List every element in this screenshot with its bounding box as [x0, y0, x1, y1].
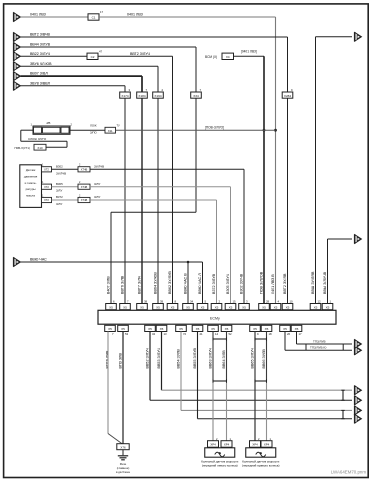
- svg-text:ХТ4В: ХТ4В: [81, 168, 88, 172]
- svg-text:Х76: Х76: [120, 446, 126, 450]
- svg-text:В372: В372: [56, 195, 63, 199]
- svg-text:З/ЛУ: З/ЛУ: [94, 182, 100, 186]
- svg-text:ВВЮ ЧАС.В: ВВЮ ЧАС.В: [183, 273, 187, 294]
- svg-text:34: 34: [152, 332, 156, 336]
- svg-text:ХТ2: ХТ2: [44, 198, 49, 202]
- svg-text:BCM (X): BCM (X): [205, 55, 217, 59]
- svg-text:Х5: Х5: [121, 327, 125, 331]
- svg-text:17: 17: [100, 10, 104, 14]
- svg-text:ВВЮ ЧАС.Л: ВВЮ ЧАС.Л: [198, 273, 202, 294]
- svg-text:ВВ62 ЗУ/ЛУВ: ВВ62 ЗУ/ЛУВ: [168, 271, 172, 294]
- svg-text:ХР4: ХР4: [210, 443, 216, 447]
- svg-text:J/B: J/B: [46, 121, 50, 125]
- svg-text:давления: давления: [24, 175, 38, 179]
- svg-text:17: 17: [299, 332, 303, 336]
- svg-text:ХР4: ХР4: [224, 443, 230, 447]
- svg-text:ВВ66 ЗУЛВ: ВВ66 ЗУЛВ: [262, 349, 266, 369]
- svg-text:Х5: Х5: [179, 327, 183, 331]
- svg-text:ВВТ7 З/ЛЧ: ВВТ7 З/ЛЧ: [137, 275, 141, 294]
- svg-text:34: 34: [190, 300, 194, 304]
- svg-text:Х5: Х5: [123, 305, 127, 309]
- svg-text:Х5: Х5: [242, 305, 246, 309]
- svg-text:ВПТ6 ЛЯВ: ВПТ6 ЛЯВ: [105, 350, 109, 369]
- svg-text:ЛОЖ: ЛОЖ: [90, 124, 97, 128]
- svg-text:15: 15: [233, 300, 237, 304]
- svg-text:10: 10: [290, 300, 294, 304]
- svg-text:39: 39: [160, 300, 164, 304]
- svg-text:ВВЮ ЧАС: ВВЮ ЧАС: [30, 258, 47, 262]
- svg-text:Х5: Х5: [265, 327, 269, 331]
- svg-text:З/ЛУ: З/ЛУ: [56, 202, 62, 206]
- svg-text:ВВ64 З/ЛВ: ВВ64 З/ЛВ: [222, 350, 226, 369]
- svg-text:Х5: Х5: [109, 305, 113, 309]
- svg-text:0401 ЛВЗ: 0401 ЛВЗ: [30, 13, 46, 17]
- svg-text:Х5: Х5: [160, 327, 164, 331]
- svg-text:Х5: Х5: [274, 305, 278, 309]
- svg-text:X4: X4: [226, 55, 230, 59]
- svg-text:18: 18: [269, 332, 273, 336]
- svg-text:(передний левого колеса): (передний левого колеса): [202, 464, 238, 468]
- svg-text:ХТ4В: ХТ4В: [81, 185, 88, 189]
- svg-text:Х5: Х5: [283, 327, 287, 331]
- svg-text:З/ЛУ: З/ЛУ: [56, 189, 62, 193]
- svg-text:Х5: Х5: [326, 305, 330, 309]
- svg-text:ВВ52 З/ЛУЧ: ВВ52 З/ЛУЧ: [145, 347, 149, 368]
- svg-text:C2: C2: [91, 55, 95, 59]
- svg-text:ЗУ/ЛЧВ: ЗУ/ЛЧВ: [94, 165, 104, 169]
- svg-text:0401 ЛВЗ.В: 0401 ЛВЗ.В: [271, 274, 275, 294]
- svg-text:ЗУ/ЛЧВ: ЗУ/ЛЧВ: [56, 171, 66, 175]
- svg-text:ХТ2: ХТ2: [44, 168, 49, 172]
- svg-text:Х5: Х5: [196, 327, 200, 331]
- svg-text:Х5: Х5: [253, 327, 257, 331]
- svg-text:ЗВУ8 З/ВВЛ: ЗВУ8 З/ВВЛ: [30, 81, 51, 85]
- svg-text:28: 28: [266, 300, 270, 304]
- svg-text:ВВШ ЗУ/ЛЯВ: ВВШ ЗУ/ЛЯВ: [311, 271, 315, 294]
- svg-text:Х5: Х5: [215, 305, 219, 309]
- svg-text:ПОВ З/ЛУОВ: ПОВ З/ЛУОВ: [259, 271, 263, 294]
- svg-text:и темпе-: и темпе-: [25, 181, 37, 185]
- svg-text:Х5: Х5: [108, 327, 112, 331]
- svg-text:72: 72: [183, 332, 187, 336]
- svg-text:12: 12: [318, 300, 322, 304]
- svg-text:ТУ: ТУ: [117, 124, 121, 128]
- svg-text:ВВ44 З/ЛУВ: ВВ44 З/ЛУВ: [30, 43, 51, 47]
- svg-text:21: 21: [200, 332, 204, 336]
- svg-text:ВВТ6 З/ЛВ: ВВТ6 З/ЛВ: [120, 275, 124, 294]
- svg-text:47: 47: [99, 49, 103, 53]
- svg-text:Х5: Х5: [262, 305, 266, 309]
- svg-text:38: 38: [144, 300, 148, 304]
- svg-text:З/ЛУ: З/ЛУ: [94, 195, 100, 199]
- svg-text:[ПОВ-З/ЛУО]: [ПОВ-З/ЛУО]: [205, 125, 224, 129]
- svg-text:26: 26: [287, 332, 291, 336]
- svg-text:ВВТ2 З/ЛУЧ: ВВТ2 З/ЛУЧ: [130, 52, 151, 56]
- svg-text:в дв.блоке: в дв.блоке: [116, 470, 131, 474]
- svg-text:(передний правого колеса): (передний правого колеса): [242, 464, 279, 468]
- svg-text:X34: X34: [193, 94, 199, 98]
- svg-text:X174: X174: [121, 94, 129, 98]
- svg-text:ТПЗ/ЛУВ: ТПЗ/ЛУВ: [313, 339, 326, 343]
- svg-text:В305 З/ЛУЧ: В305 З/ЛУЧ: [226, 273, 230, 294]
- svg-text:ВВ22 З/ЛУЧ: ВВ22 З/ЛУЧ: [30, 52, 51, 56]
- svg-text:Х11: Х11: [108, 129, 113, 133]
- svg-text:Х5: Х5: [148, 327, 152, 331]
- svg-text:LWA64EM70.pnm: LWA64EM70.pnm: [331, 470, 366, 475]
- svg-text:ВВ55 З/ЛУВ: ВВ55 З/ЛУВ: [193, 347, 197, 368]
- svg-text:В407 З/ЛВ: В407 З/ЛВ: [106, 276, 110, 294]
- svg-text:X284: X284: [284, 94, 292, 98]
- svg-text:Х5: Х5: [286, 305, 290, 309]
- svg-text:З/ПО: З/ПО: [90, 130, 97, 134]
- svg-text:В302 ЗУ/ЧВ: В302 ЗУ/ЧВ: [239, 273, 243, 294]
- svg-text:ВВ63 З/ЛУЧ: ВВ63 З/ЛУЧ: [208, 347, 212, 368]
- svg-text:ВВТ2 З/ВЧВ: ВВТ2 З/ВЧВ: [30, 33, 51, 37]
- svg-text:Х5: Х5: [229, 305, 233, 309]
- svg-text:Х5: Х5: [314, 305, 318, 309]
- svg-text:Х5: Х5: [225, 327, 229, 331]
- svg-text:ВВ65 З/ЛУЧ: ВВ65 З/ЛУЧ: [250, 347, 254, 368]
- svg-text:Х5: Х5: [295, 327, 299, 331]
- svg-text:Х5: Х5: [140, 305, 144, 309]
- svg-text:0401 ЛВЗ: 0401 ЛВЗ: [127, 13, 143, 17]
- svg-text:Датчик: Датчик: [26, 168, 36, 172]
- svg-text:Х5: Х5: [201, 305, 205, 309]
- svg-text:C1: C1: [92, 16, 96, 20]
- svg-text:ВВ54 ЗУЛВ: ВВ54 ЗУЛВ: [176, 349, 180, 369]
- svg-text:ВВ07 З/ВЛ: ВВ07 З/ВЛ: [30, 72, 48, 76]
- svg-text:Х5: Х5: [211, 327, 215, 331]
- svg-text:П0В-Х(УГ1): П0В-Х(УГ1): [15, 146, 30, 150]
- svg-text:ВВ64 ЗУ/ЮВ: ВВ64 ЗУ/ЮВ: [153, 272, 157, 294]
- svg-text:53: 53: [125, 332, 129, 336]
- svg-text:ратуры: ратуры: [26, 187, 36, 191]
- svg-text:ХТ4В: ХТ4В: [81, 198, 88, 202]
- svg-text:ХР4: ХР4: [264, 443, 270, 447]
- svg-text:масла: масла: [26, 193, 35, 197]
- svg-text:Х5: Х5: [156, 305, 160, 309]
- svg-text:В305: В305: [56, 182, 63, 186]
- svg-text:[0401 ЛВЗ]: [0401 ЛВЗ]: [241, 50, 257, 54]
- svg-text:X194: X194: [154, 94, 162, 98]
- svg-text:СЛОЖ З/УГО: СЛОЖ З/УГО: [28, 137, 47, 141]
- svg-text:В372 З/ЛУВ: В372 З/ЛУВ: [212, 273, 216, 294]
- svg-text:Х10: Х10: [37, 146, 43, 150]
- svg-text:ВВТ2 ЗУ/ЛВ: ВВТ2 ЗУ/ЛВ: [283, 273, 287, 294]
- svg-text:X184: X184: [138, 94, 146, 98]
- svg-text:52: 52: [229, 332, 233, 336]
- svg-text:13: 13: [164, 332, 168, 336]
- svg-text:ВПЗ ЗЛВ: ВПЗ ЗЛВ: [118, 353, 122, 369]
- svg-text:ТПЗ/ЛУВ.Ю: ТПЗ/ЛУВ.Ю: [310, 346, 326, 350]
- svg-text:14: 14: [215, 332, 219, 336]
- svg-text:Х5: Х5: [186, 305, 190, 309]
- svg-text:Х5: Х5: [171, 305, 175, 309]
- svg-text:ECMy: ECMy: [210, 317, 220, 321]
- svg-text:В302: В302: [56, 165, 63, 169]
- svg-text:ХТ2: ХТ2: [44, 185, 49, 189]
- svg-text:ВВЫ З/ЛУЧВ: ВВЫ З/ЛУЧВ: [323, 271, 327, 294]
- svg-text:ВВ53 З/ЛУЧ: ВВ53 З/ЛУЧ: [157, 347, 161, 368]
- svg-text:ХР4: ХР4: [252, 443, 258, 447]
- svg-text:ЗВУ6 ЧЛ.ЮВ: ЗВУ6 ЧЛ.ЮВ: [30, 62, 52, 66]
